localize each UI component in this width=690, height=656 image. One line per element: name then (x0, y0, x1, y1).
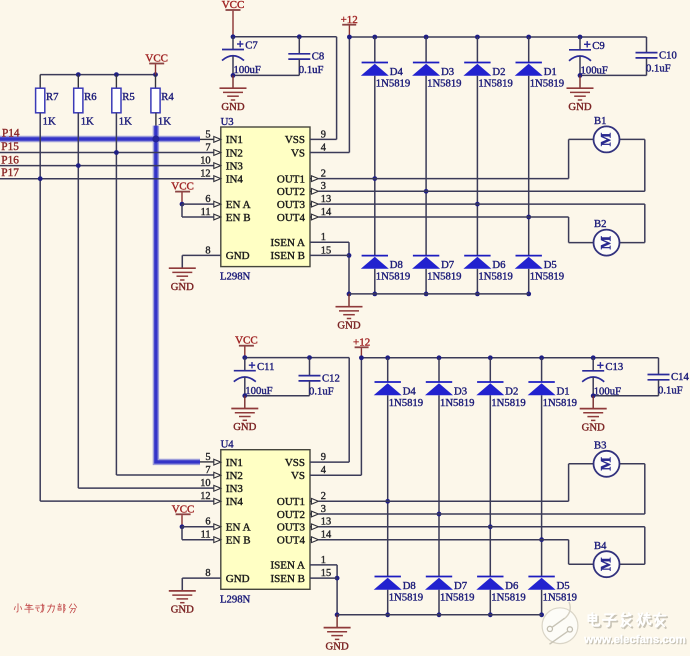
ground symbol at (244.8,395.7) (231, 396, 258, 434)
svg-text:L298N: L298N (220, 271, 251, 283)
junction diode/OUT wire (bottom) (385, 499, 390, 504)
junction diode column on gnd bus (bottom) (539, 612, 544, 617)
wire VCC bus C7-C8-VSS corner (233, 36, 337, 38)
svg-text:1K: 1K (43, 116, 56, 128)
svg-text:5: 5 (205, 452, 210, 463)
capacitor C7 (100uF polarized) at x=233 (222, 37, 261, 76)
wire OUT1 to B3 left (318, 500, 568, 502)
wire EN B to U3 pin 11 (182, 216, 214, 218)
wire U3 ISEN A pin 1 (310, 241, 349, 243)
wire gnd bus (top half) (349, 293, 529, 295)
watermark elecfans logo (542, 602, 578, 644)
svg-text:IN1: IN1 (226, 457, 243, 469)
svg-text:D8: D8 (403, 580, 416, 592)
svg-text:ISEN B: ISEN B (270, 250, 305, 262)
svg-text:1N5819: 1N5819 (478, 270, 512, 282)
wire U4 VSS pin 9 (310, 461, 349, 463)
diode D8 1N5819 at (374.8,255.6) (361, 256, 410, 283)
wire U4 GND pin 8 (182, 577, 221, 579)
svg-text:www.elecfans.com: www.elecfans.com (583, 634, 686, 646)
junction ISEN B (bottom) (335, 576, 340, 581)
junction diode column on gnd bus (526, 292, 531, 297)
svg-text:EN B: EN B (226, 212, 251, 224)
svg-text:R5: R5 (122, 91, 134, 103)
svg-text:1N5819: 1N5819 (389, 591, 423, 603)
svg-text:ISEN A: ISEN A (270, 560, 305, 572)
power symbol VCC at x=233 (222, 0, 245, 37)
wire EN A to U4 pin 6 (182, 526, 214, 528)
power symbol VCC at x=246.4 (235, 335, 258, 358)
wire diode column x=387.7 (bottom half) (387, 358, 389, 382)
svg-text:GND: GND (233, 421, 256, 433)
power symbol VCC at x=183.1 (172, 503, 195, 527)
wire OUT4 to B4 left (318, 539, 568, 541)
wire U3 GND pin 8 (182, 254, 221, 256)
wire OUT2 to B3 right (318, 513, 644, 515)
svg-text:D1: D1 (544, 66, 557, 78)
svg-text:C8: C8 (312, 50, 324, 62)
junction diode column on gnd bus (372, 292, 377, 297)
svg-text:D6: D6 (505, 580, 519, 592)
svg-text:B1: B1 (594, 115, 606, 127)
wire OUT4 to B2 left (318, 216, 568, 218)
junction diode column on +12 bus (372, 35, 377, 40)
diode D1 1N5819 at (528.7,62.5) (515, 63, 564, 90)
junction diode column on gnd bus (bottom) (437, 612, 442, 617)
svg-text:VS: VS (291, 470, 305, 482)
svg-text:1N5819: 1N5819 (389, 397, 423, 409)
capacitor C13 (100uF polarized) at x=593.2 (582, 358, 623, 398)
watermark text 电子发烧友 (589, 613, 667, 628)
svg-text:OUT4: OUT4 (277, 535, 306, 547)
svg-text:1N5819: 1N5819 (491, 591, 525, 603)
svg-text:IN2: IN2 (226, 147, 243, 159)
svg-text:GND: GND (171, 604, 194, 616)
junction diode column on +12 bus (475, 35, 480, 40)
junction diode/OUT wire (424, 189, 429, 194)
svg-text:M: M (599, 235, 615, 249)
wire P15 to U3 pin 7 (0, 152, 214, 154)
svg-text:D7: D7 (441, 259, 455, 271)
junction +12/VS (347, 35, 352, 40)
svg-text:D2: D2 (492, 66, 505, 78)
wire P16 to U3 pin 10 (0, 165, 214, 167)
diode D5 1N5819 at (528.7,255.6) (515, 256, 564, 283)
diode D1 1N5819 at (541.6,382) (528, 382, 577, 409)
wire U3 VS pin 4 (310, 152, 349, 154)
svg-text:B4: B4 (594, 540, 607, 552)
junction ISEN B (347, 253, 352, 258)
svg-text:D2: D2 (505, 385, 518, 397)
wire P14 thin tail to U3 pin 5 (200, 138, 214, 140)
wire R4 bottom stub (155, 113, 157, 126)
svg-text:OUT3: OUT3 (277, 522, 306, 534)
wire R6 column down to U4.IN3 (77, 113, 79, 488)
junction dots on resistor bus (76, 72, 81, 77)
diode D3 1N5819 at (439,382) (425, 382, 474, 409)
junction +12/VS (bottom) (359, 355, 364, 360)
svg-text:1N5819: 1N5819 (440, 591, 474, 603)
wire VS feed from +12 (348, 37, 350, 153)
svg-text:1N5819: 1N5819 (530, 77, 564, 89)
svg-text:12: 12 (200, 169, 210, 180)
svg-text:EN A: EN A (226, 199, 251, 211)
ground symbol at (182.3,255.4) (169, 255, 196, 293)
svg-text:IN2: IN2 (226, 470, 243, 482)
svg-text:D5: D5 (544, 259, 557, 271)
junction C7 bottom (231, 73, 236, 78)
wire C7-C8 bottom link (233, 74, 299, 76)
wire OUT3 to B2 right (318, 203, 644, 205)
capacitor C10 (0.1uF) at x=646.5 (636, 37, 677, 75)
wire +12 bus (349, 36, 646, 38)
junction ISEN/gnd bus (347, 292, 352, 297)
svg-text:R4: R4 (161, 91, 174, 103)
svg-text:R6: R6 (84, 91, 97, 103)
svg-text:1K: 1K (119, 116, 132, 128)
svg-text:12: 12 (200, 491, 210, 502)
motor B2 at (606.5,242.6) (594, 218, 620, 255)
svg-text:VSS: VSS (285, 134, 305, 146)
junction P14/R4 (152, 135, 159, 142)
svg-text:M: M (599, 457, 615, 471)
junction C9 bottom (578, 73, 583, 78)
wire R7 column down to U4.IN4 (39, 113, 41, 501)
junction C11 bottom (242, 393, 247, 398)
svg-text:11: 11 (201, 530, 211, 541)
wire net P14 thick blue horizontal to U3.IN1 (0, 136, 200, 142)
svg-text:GND: GND (171, 281, 194, 293)
svg-text:VS: VS (291, 147, 305, 159)
wire P17 to U3 pin 12 (0, 178, 214, 180)
svg-text:IN4: IN4 (226, 496, 244, 508)
motor B4 at (606.5,564.2) (594, 540, 620, 577)
svg-text:1N5819: 1N5819 (478, 77, 512, 89)
svg-text:1N5819: 1N5819 (530, 270, 564, 282)
ground symbol at (580,75.4) (567, 75, 594, 113)
diode D4 1N5819 at (387.7,382) (374, 382, 423, 409)
svg-text:1N5819: 1N5819 (376, 270, 410, 282)
wire gnd bus (bottom half) (337, 614, 541, 616)
svg-text:10: 10 (200, 156, 210, 167)
junction C7 top (231, 34, 236, 39)
junction diode/OUT wire (372, 176, 377, 181)
junction diode/OUT wire (bottom) (437, 512, 442, 517)
diode D2 1N5819 at (477.4,62.5) (463, 63, 512, 90)
junction C13 bottom (591, 393, 596, 398)
junction diode/OUT wire (475, 202, 480, 207)
op-amp/IC U4 L298N (200, 439, 332, 606)
diode D7 1N5819 at (439,576.5) (425, 577, 474, 604)
diode D6 1N5819 at (490.3,576.5) (476, 577, 525, 604)
wire ISEN vertical (348, 242, 350, 294)
junction diode column on +12 bus (bottom) (385, 355, 390, 360)
svg-text:1: 1 (321, 555, 326, 566)
svg-text:1K: 1K (158, 116, 171, 128)
svg-text:D4: D4 (390, 66, 404, 78)
svg-text:C12: C12 (322, 372, 340, 384)
wire C11-C12 bottom link (245, 395, 310, 397)
svg-text:IN3: IN3 (226, 483, 244, 495)
svg-text:1N5819: 1N5819 (491, 397, 525, 409)
junction diode column on +12 bus (bottom) (488, 355, 493, 360)
svg-text:10: 10 (200, 478, 210, 489)
junction EN A (180, 202, 185, 207)
junction EN A (bottom) (180, 524, 185, 529)
junction diode column on +12 bus (424, 35, 429, 40)
svg-text:100uF: 100uF (581, 64, 608, 76)
svg-text:P14: P14 (2, 127, 20, 139)
svg-text:C9: C9 (592, 40, 604, 52)
motor B3 at (606.5,463.8) (594, 439, 620, 476)
svg-text:P15: P15 (1, 141, 19, 153)
ground symbol at (349,293.9) (336, 294, 363, 332)
svg-text:7: 7 (205, 142, 210, 153)
svg-text:C13: C13 (605, 361, 623, 373)
diode D7 1N5819 at (426.1,255.6) (412, 256, 461, 283)
junction diode column on gnd bus (bottom) (488, 612, 493, 617)
junction R5/P15 (114, 150, 119, 155)
svg-text:U3: U3 (221, 116, 234, 128)
svg-text:M: M (599, 132, 615, 146)
wire EN A-EN B vertical (181, 204, 183, 217)
wire diode column x=477.4 (top half) (476, 37, 478, 63)
svg-text:GND: GND (337, 319, 360, 331)
svg-text:GND: GND (568, 101, 591, 113)
svg-text:OUT1: OUT1 (277, 496, 305, 508)
wire diode column x=439 (bottom half) (438, 358, 440, 382)
svg-text:R7: R7 (46, 91, 59, 103)
op-amp/IC U3 L298N (200, 116, 332, 283)
diode D3 1N5819 at (426.1,62.5) (412, 63, 461, 90)
svg-text:C11: C11 (257, 361, 274, 373)
wire diode column x=541.6 (bottom half) (541, 358, 543, 382)
wire diode column x=528.7 (top half) (528, 37, 530, 63)
wire ISEN vertical (bottom) (336, 565, 338, 615)
capacitor C14 (0.1uF) at x=658.5 (648, 358, 690, 397)
svg-text:0.1uF: 0.1uF (658, 385, 683, 397)
resistor R6 1K at x=78.3 (74, 75, 98, 128)
svg-text:1K: 1K (81, 116, 94, 128)
svg-text:OUT4: OUT4 (277, 212, 306, 224)
junction R6/P16 (76, 163, 81, 168)
junction C12 top (307, 355, 312, 360)
junction diode column on gnd bus (424, 292, 429, 297)
diode D6 1N5819 at (477.4,255.6) (463, 256, 512, 283)
svg-text:D7: D7 (454, 580, 468, 592)
svg-text:14: 14 (321, 530, 332, 541)
junction ISEN/gnd bus (bottom) (335, 612, 340, 617)
svg-text:5: 5 (205, 129, 210, 140)
watermark url www.elecfans.com (583, 634, 687, 647)
wire U3 VSS pin 9 (310, 138, 337, 140)
capacitor C12 (0.1uF) at x=309.5 (299, 358, 340, 398)
capacitor C9 (100uF polarized) at x=580 (569, 37, 608, 76)
svg-text:EN A: EN A (226, 522, 251, 534)
wire EN A-EN B vertical (bottom) (181, 527, 183, 540)
wire diode column x=426.1 (top half) (425, 37, 427, 63)
ground symbol at (593.2,395.8) (580, 396, 607, 434)
svg-text:OUT3: OUT3 (277, 199, 306, 211)
svg-text:OUT2: OUT2 (277, 186, 305, 198)
svg-text:D3: D3 (441, 66, 454, 78)
svg-text:D1: D1 (557, 385, 570, 397)
wire OUT3 to B4 right (318, 526, 644, 528)
ground symbol at (233,75.4) (220, 75, 247, 113)
wire U4 VS pin 4 (310, 474, 361, 476)
svg-text:IN1: IN1 (226, 134, 243, 146)
svg-text:1N5819: 1N5819 (376, 77, 410, 89)
svg-text:B2: B2 (594, 218, 606, 230)
wire U4 ISEN B pin 15 (310, 577, 337, 579)
svg-text:1N5819: 1N5819 (440, 397, 474, 409)
svg-text:GND: GND (226, 573, 250, 585)
svg-text:1N5819: 1N5819 (427, 270, 461, 282)
svg-text:0.1uF: 0.1uF (309, 386, 334, 398)
wire EN A to U3 pin 6 (182, 203, 214, 205)
wire VCC bus C11-C12-VSS corner (bottom) (245, 357, 349, 359)
svg-text:GND: GND (582, 421, 605, 433)
svg-text:IN3: IN3 (226, 160, 244, 172)
diode D4 1N5819 at (374.8,62.5) (361, 63, 410, 90)
wire R5 column down to U4.IN2 (115, 113, 117, 475)
junction C11 top (242, 355, 247, 360)
capacitor C11 (100uF polarized) at x=244.8 (234, 358, 275, 398)
svg-text:1N5819: 1N5819 (543, 591, 577, 603)
svg-text:1N5819: 1N5819 (427, 77, 461, 89)
junction diode/OUT wire (bottom) (488, 524, 493, 529)
svg-text:C7: C7 (245, 40, 258, 52)
svg-text:1N5819: 1N5819 (543, 397, 577, 409)
junction diode/OUT wire (bottom) (539, 537, 544, 542)
svg-text:P16: P16 (1, 154, 19, 166)
wire OUT2 to B1 right (318, 190, 644, 192)
junction diode/OUT wire (526, 215, 531, 220)
svg-text:0.1uF: 0.1uF (299, 64, 324, 76)
power symbol VCC at x=156.7 (145, 53, 168, 75)
power symbol +12 at x=349.2 (341, 14, 358, 37)
junction C8 top (297, 34, 302, 39)
svg-text:0.1uF: 0.1uF (646, 63, 671, 75)
wire OUT1 to B1 left (318, 178, 568, 180)
svg-text:L298N: L298N (220, 593, 251, 605)
wire +12 bus (bottom) (361, 357, 658, 359)
power symbol +12 at x=361.6 (353, 337, 370, 358)
svg-text:ISEN A: ISEN A (270, 237, 305, 249)
wire C9-C10 bottom link (580, 74, 647, 76)
caption 小车动力部分 (red) (14, 604, 76, 613)
wire VS feed from +12 (bottom) (360, 358, 362, 475)
diode D5 1N5819 at (541.6,576.5) (528, 577, 577, 604)
svg-text:C10: C10 (659, 49, 677, 61)
capacitor C8 (0.1uF) at x=299.3 (288, 37, 324, 76)
diode D2 1N5819 at (490.3,382) (476, 382, 525, 409)
diode D8 1N5819 at (387.7,576.5) (374, 577, 423, 604)
svg-text:D6: D6 (492, 259, 506, 271)
wire diode column x=374.8 (top half) (374, 37, 376, 63)
svg-text:ISEN B: ISEN B (270, 573, 305, 585)
svg-text:B3: B3 (594, 439, 606, 451)
svg-text:M: M (599, 557, 615, 571)
wire net P14 thick blue vertical + corner to U4.IN1 (156, 126, 200, 462)
svg-text:P17: P17 (1, 167, 19, 179)
svg-text:D4: D4 (403, 385, 417, 397)
svg-text:OUT1: OUT1 (277, 173, 305, 185)
ground symbol at (337.1,614.8) (324, 615, 351, 653)
junction C13 top (591, 355, 596, 360)
svg-text:D8: D8 (390, 259, 403, 271)
resistor R5 1K at x=116.4 (112, 75, 135, 128)
svg-text:D3: D3 (454, 385, 467, 397)
svg-text:IN4: IN4 (226, 173, 244, 185)
wire resistor VCC bus (40, 74, 155, 76)
resistor R7 1K at x=40.2 (36, 75, 60, 128)
wire C13-C14 bottom link (593, 395, 658, 397)
svg-text:100uF: 100uF (234, 64, 261, 76)
svg-text:VSS: VSS (285, 457, 305, 469)
junction diode column on +12 bus (526, 35, 531, 40)
wire U3 ISEN B pin 15 (310, 254, 349, 256)
wire P14 thin tail to U4 pin 5 (200, 461, 214, 463)
svg-text:EN B: EN B (226, 535, 251, 547)
svg-text:U4: U4 (221, 439, 235, 451)
svg-text:GND: GND (221, 101, 244, 113)
svg-text:GND: GND (326, 640, 349, 652)
wire EN B to U4 pin 11 (182, 539, 214, 541)
junction diode column on +12 bus (bottom) (539, 355, 544, 360)
junction C9 top (578, 35, 583, 40)
svg-text:GND: GND (226, 250, 250, 262)
resistor R4 1K at x=155.5 (151, 75, 175, 128)
junction R7/P17 (38, 176, 43, 181)
wire diode column x=490.3 (bottom half) (489, 358, 491, 382)
junction diode column on +12 bus (bottom) (437, 355, 442, 360)
motor B1 at (606.5,139.4) (594, 115, 620, 152)
wire U4 ISEN A pin 1 (310, 564, 337, 566)
svg-text:D5: D5 (557, 580, 570, 592)
svg-text:C14: C14 (671, 371, 689, 383)
junction diode column on gnd bus (bottom) (385, 612, 390, 617)
ground symbol at (182.3,578.1) (169, 578, 196, 616)
svg-text:7: 7 (205, 465, 210, 476)
svg-text:OUT2: OUT2 (277, 509, 305, 521)
junction diode column on gnd bus (475, 292, 480, 297)
power symbol VCC at x=182.6 (171, 181, 194, 205)
